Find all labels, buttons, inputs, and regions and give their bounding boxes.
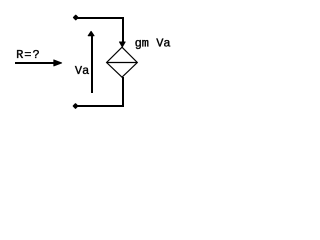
node B (bottom-left terminal junction dot) [73,104,77,108]
svg-text:R=?: R=? [16,48,41,62]
voltage arrow Va: shaft (pointing up) [91,36,93,93]
arrow under R=? : arrowhead (right) [54,60,62,66]
node A (top-left terminal junction dot) [74,15,78,19]
wire: right vertical from corner down to source arrowhead [122,17,124,42]
svg-text:Va: Va [75,64,89,78]
dependent current source G1: diamond body [107,47,138,77]
wire: vertical below source [122,77,124,107]
wire: top horizontal from node A to corner [76,17,124,19]
voltage arrow Va: arrowhead (up) [88,31,94,36]
arrow under R=? : shaft (pointing right) [15,62,54,64]
svg-text:gm Va: gm Va [135,37,171,51]
wire: bottom horizontal to node B [76,105,124,107]
arrowhead: current direction into source (points down) [119,42,125,47]
dependent current source G1: horizontal chord [107,62,138,64]
